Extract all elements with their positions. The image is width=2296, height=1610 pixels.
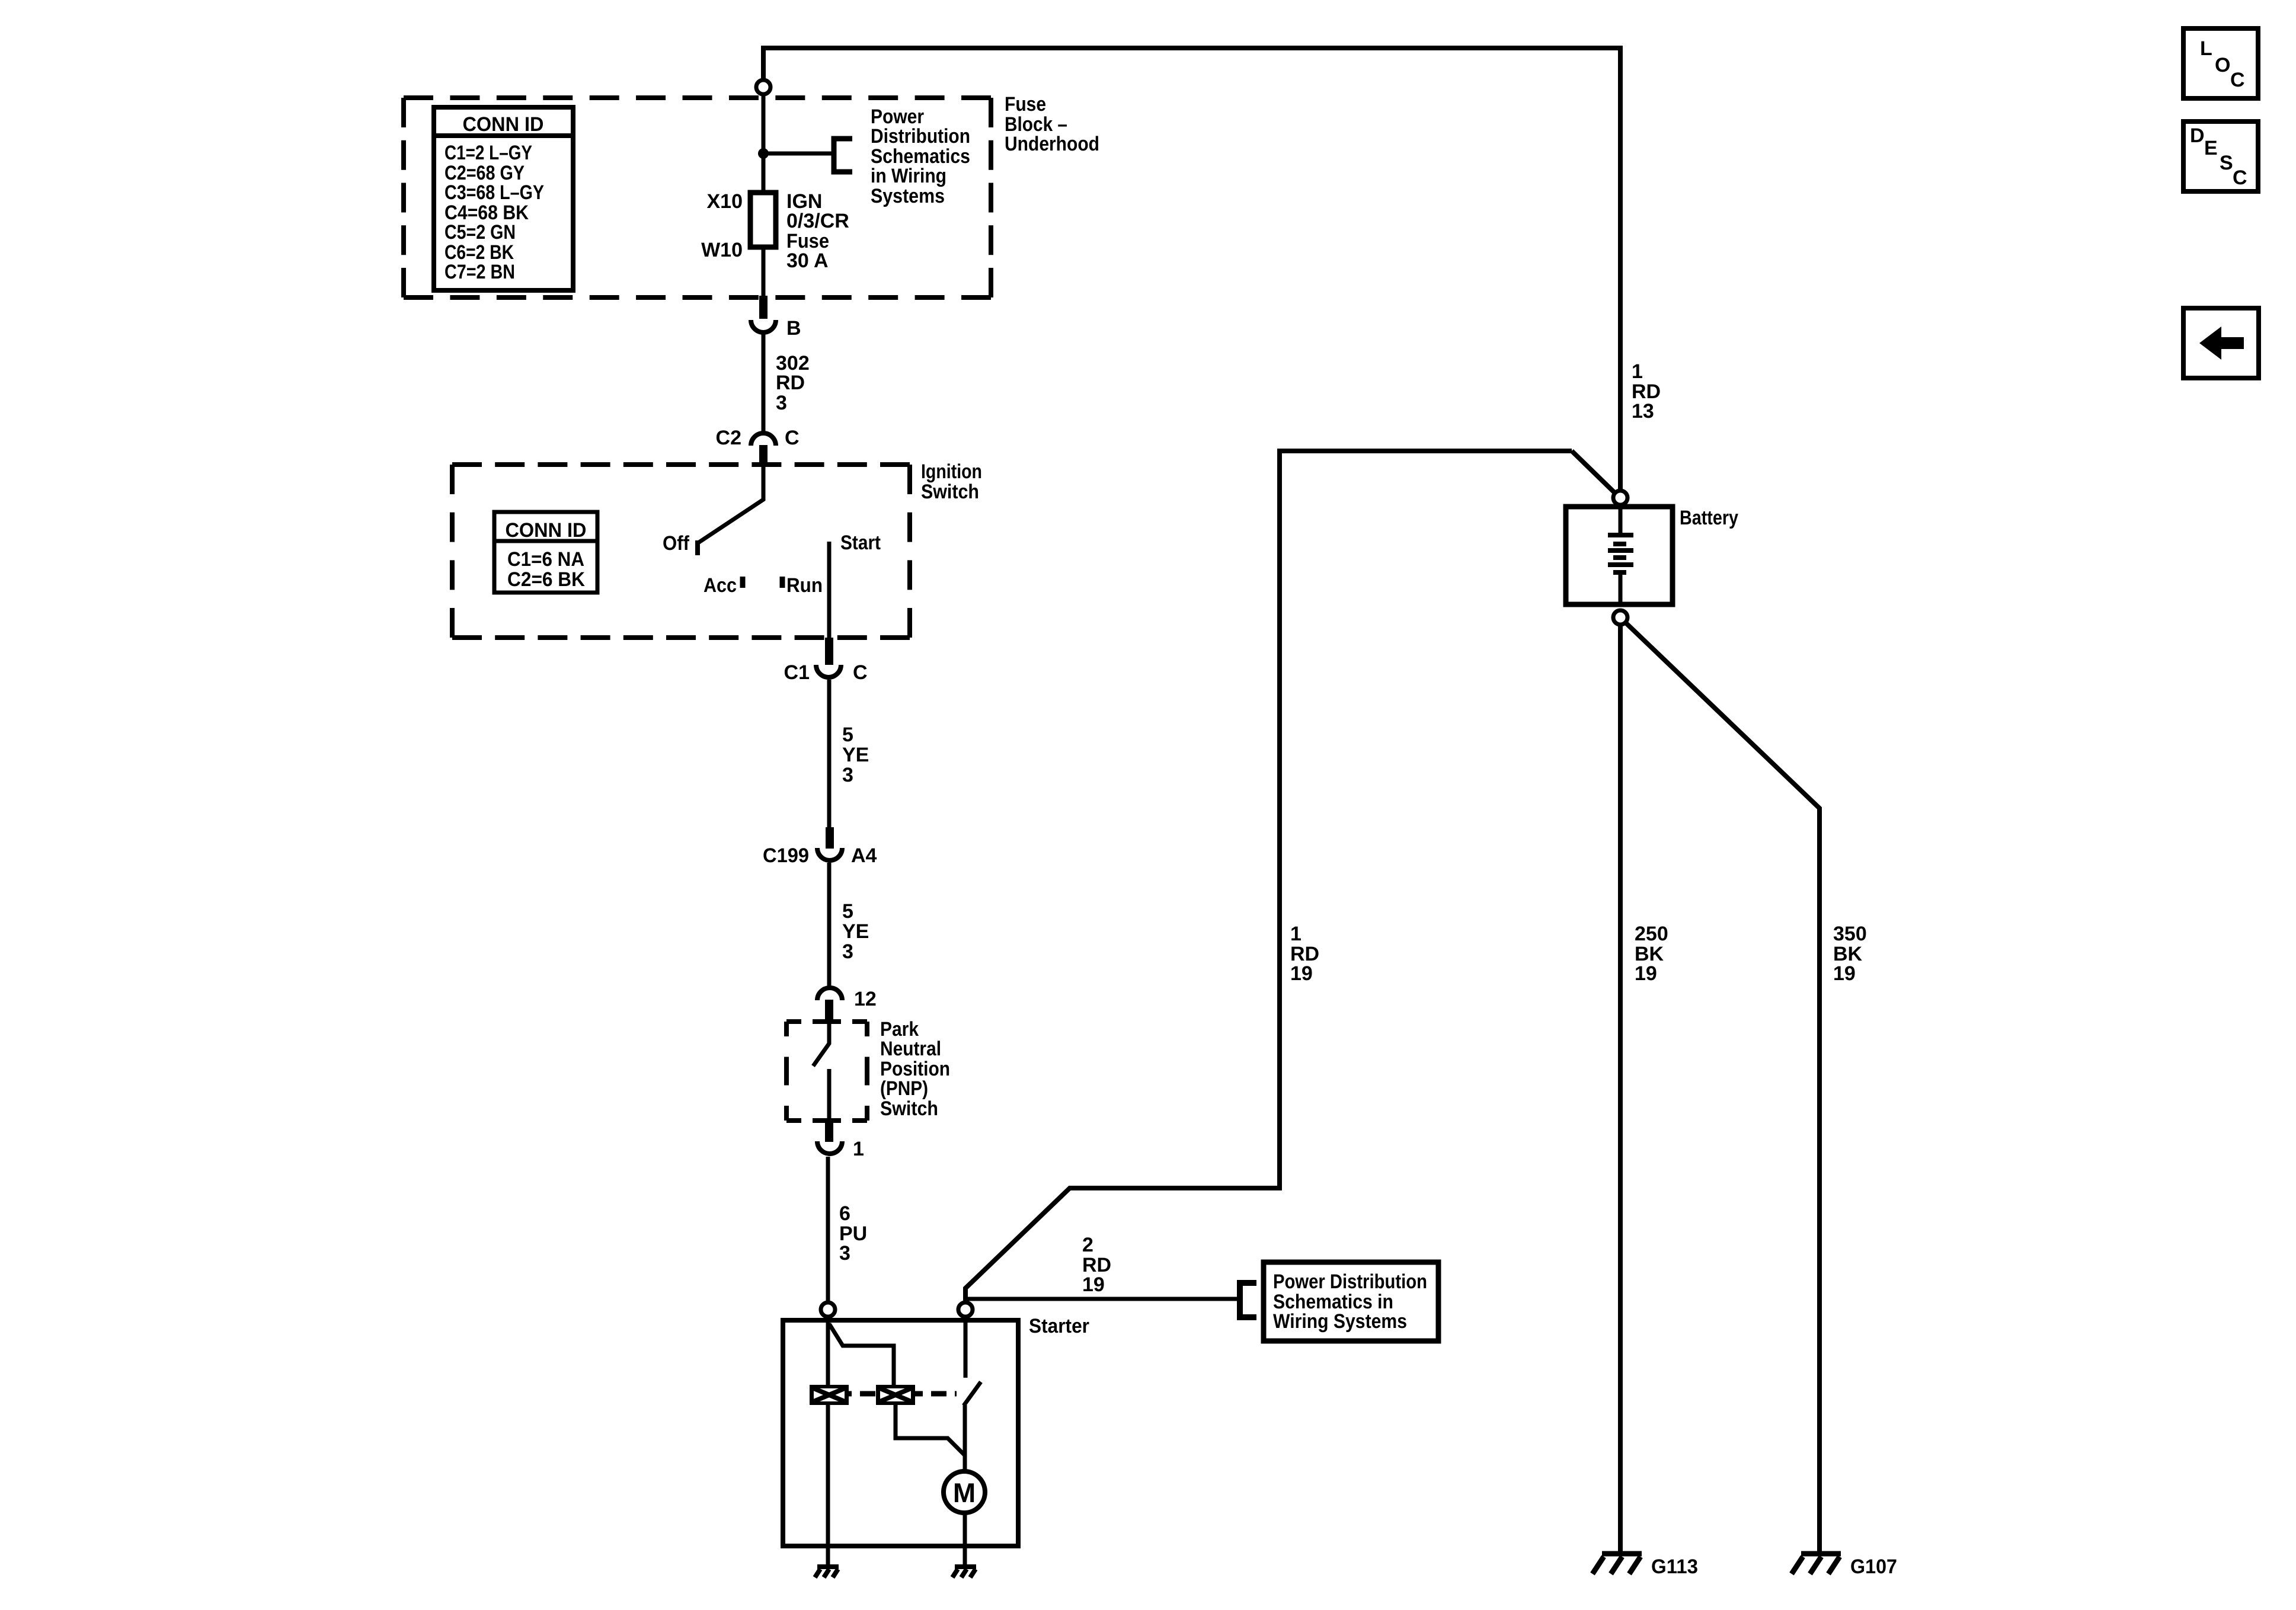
svg-text:G113: G113 bbox=[1651, 1555, 1698, 1578]
svg-text:Acc: Acc bbox=[703, 574, 737, 597]
starter motor M bbox=[944, 1471, 985, 1513]
svg-text:O: O bbox=[2215, 54, 2230, 76]
wire label 1 RD 19 bbox=[1290, 923, 1319, 985]
svg-text:Off: Off bbox=[663, 532, 690, 555]
svg-text:30 A: 30 A bbox=[786, 249, 829, 272]
starter terminal S bbox=[821, 1302, 835, 1317]
wire label 250 BK 19 bbox=[1635, 923, 1668, 985]
starter: coil dashed link bbox=[849, 1391, 957, 1397]
svg-text:X10: X10 bbox=[707, 190, 743, 213]
PNP switch blade bbox=[813, 1021, 829, 1066]
ground: starter motor bbox=[952, 1567, 976, 1577]
junction dot to off-page pointer bbox=[758, 148, 769, 159]
starter: blade to pull-in coil bbox=[829, 1324, 894, 1385]
fuse IGN 30A bbox=[750, 193, 776, 247]
CONN ID table (fuse block) bbox=[434, 107, 573, 290]
label: power distribution schematics (fuse block) bbox=[871, 105, 970, 207]
connector B socket arc bbox=[751, 320, 776, 332]
wire: 6 PU 3 bbox=[826, 1157, 830, 1302]
wire label 5 YE 3 (lower) bbox=[842, 900, 869, 963]
PNP switch dashed box bbox=[786, 1022, 867, 1121]
PNP lower contact bbox=[827, 1069, 832, 1125]
wire: 302 RD 3 bbox=[762, 334, 766, 433]
wire: fuse to connector B bbox=[762, 247, 766, 298]
svg-text:C2: C2 bbox=[716, 427, 741, 449]
svg-text:19: 19 bbox=[1082, 1273, 1105, 1296]
acc contact tick bbox=[740, 577, 746, 588]
svg-text:3: 3 bbox=[776, 392, 787, 414]
svg-text:C: C bbox=[853, 661, 868, 684]
ignition switch dashed box bbox=[452, 465, 910, 638]
node: splice above fuse block bbox=[756, 80, 770, 94]
label: fuse block - underhood bbox=[1005, 93, 1099, 155]
svg-text:in Wiring: in Wiring bbox=[871, 165, 946, 187]
svg-text:C1=2 L–GY: C1=2 L–GY bbox=[445, 142, 532, 164]
ground G113 bbox=[1593, 1554, 1642, 1574]
wire label 1 RD 13 bbox=[1632, 360, 1661, 422]
battery top terminal bbox=[1613, 491, 1627, 505]
wire label 2 RD 19 bbox=[1082, 1234, 1111, 1296]
svg-text:Distribution: Distribution bbox=[871, 125, 970, 148]
ground G107 bbox=[1792, 1554, 1841, 1574]
connector C1 pin bbox=[825, 638, 833, 665]
fuse block - underhood dashed box bbox=[404, 98, 991, 297]
connector 1 pin bbox=[825, 1122, 833, 1142]
svg-text:Power Distribution: Power Distribution bbox=[1273, 1270, 1427, 1293]
svg-text:5: 5 bbox=[842, 724, 853, 746]
svg-text:19: 19 bbox=[1833, 962, 1856, 985]
run contact tick bbox=[780, 577, 785, 588]
connector C2 dome bbox=[751, 433, 776, 446]
svg-text:C7=2 BN: C7=2 BN bbox=[445, 261, 515, 283]
svg-text:C: C bbox=[2230, 69, 2245, 91]
svg-text:12: 12 bbox=[854, 988, 877, 1010]
svg-text:3: 3 bbox=[839, 1242, 850, 1265]
starter: pull-in coil bbox=[876, 1385, 915, 1405]
svg-text:3: 3 bbox=[842, 764, 853, 786]
wire: 350 BK 19 to G107 bbox=[1625, 622, 1819, 1553]
connector 1 socket arc bbox=[817, 1141, 842, 1154]
svg-text:0/3/CR: 0/3/CR bbox=[786, 210, 849, 232]
svg-text:3: 3 bbox=[842, 940, 853, 963]
svg-text:350: 350 bbox=[1833, 923, 1867, 945]
svg-text:C3=68 L–GY: C3=68 L–GY bbox=[445, 181, 544, 204]
svg-text:6: 6 bbox=[839, 1202, 850, 1225]
svg-text:S: S bbox=[2220, 152, 2233, 174]
battery bottom terminal bbox=[1613, 610, 1627, 625]
wire: diagonal into battery + terminal bbox=[1572, 451, 1617, 495]
svg-text:19: 19 bbox=[1290, 962, 1313, 985]
connector C2 pin bbox=[759, 445, 768, 467]
svg-text:1: 1 bbox=[1632, 360, 1643, 383]
svg-text:G107: G107 bbox=[1850, 1555, 1897, 1578]
starter terminal B bbox=[958, 1302, 973, 1317]
label: park neutral position switch bbox=[880, 1018, 950, 1120]
svg-text:(PNP): (PNP) bbox=[880, 1077, 928, 1100]
svg-text:W10: W10 bbox=[701, 239, 743, 261]
svg-text:Wiring Systems: Wiring Systems bbox=[1273, 1310, 1407, 1333]
starter: wire to motor bbox=[963, 1405, 967, 1473]
CONN ID table (ignition switch) bbox=[494, 512, 597, 593]
wire label 5 YE 3 (upper) bbox=[842, 724, 869, 786]
off contact tick bbox=[695, 540, 700, 555]
svg-text:CONN ID: CONN ID bbox=[463, 113, 544, 136]
wire: 2 RD 19 to off-page bbox=[965, 1297, 1237, 1301]
LOC box bbox=[2183, 28, 2258, 98]
svg-text:Switch: Switch bbox=[921, 481, 979, 503]
start contact wire bbox=[827, 542, 832, 638]
power distribution schematics box bbox=[1264, 1262, 1438, 1341]
svg-text:Start: Start bbox=[840, 532, 881, 554]
off-page bracket (starter feed) bbox=[1240, 1283, 1256, 1317]
wire: 250 BK 19 to G113 bbox=[1618, 625, 1623, 1553]
svg-text:Run: Run bbox=[786, 574, 823, 597]
svg-text:E: E bbox=[2204, 137, 2218, 159]
wire: to off-page bracket bbox=[763, 152, 832, 156]
svg-text:1: 1 bbox=[1290, 923, 1302, 945]
wire: node to fuse bbox=[762, 94, 766, 196]
connector C1 socket arc bbox=[816, 665, 841, 677]
battery cells bbox=[1619, 507, 1623, 533]
starter: motor to ground bbox=[963, 1513, 967, 1566]
svg-text:B: B bbox=[786, 317, 801, 340]
svg-text:C199: C199 bbox=[763, 844, 809, 867]
svg-text:Systems: Systems bbox=[871, 185, 945, 207]
DESC box bbox=[2183, 121, 2258, 191]
svg-text:19: 19 bbox=[1635, 962, 1657, 985]
starter: pull-in coil return bbox=[896, 1405, 964, 1455]
svg-text:Neutral: Neutral bbox=[880, 1038, 941, 1060]
starter: left wire through hold-in coil bbox=[826, 1317, 830, 1566]
svg-text:Switch: Switch bbox=[880, 1097, 938, 1120]
svg-text:1: 1 bbox=[853, 1138, 864, 1160]
connector 12 dome bbox=[817, 988, 842, 1000]
starter: contact fixed wire bbox=[964, 1317, 968, 1378]
starter: contact blade bbox=[964, 1382, 981, 1406]
wire label 302 RD 3 bbox=[776, 352, 810, 414]
connector C199 socket arc bbox=[817, 848, 842, 860]
svg-text:C2=6 BK: C2=6 BK bbox=[507, 568, 585, 591]
svg-text:Fuse: Fuse bbox=[1005, 93, 1046, 116]
svg-text:Starter: Starter bbox=[1029, 1315, 1089, 1337]
ground: starter solenoid bbox=[815, 1567, 839, 1577]
svg-text:A4: A4 bbox=[851, 844, 877, 867]
wire label 6 PU 3 bbox=[839, 1202, 867, 1265]
svg-text:250: 250 bbox=[1635, 923, 1668, 945]
battery box bbox=[1566, 507, 1673, 604]
svg-text:C: C bbox=[785, 427, 800, 449]
wire label 350 BK 19 bbox=[1833, 923, 1867, 985]
off-page bracket (power distribution) bbox=[834, 139, 852, 172]
connector C199 pin bbox=[826, 827, 834, 849]
connector B pin bbox=[759, 296, 768, 319]
svg-text:YE: YE bbox=[842, 744, 869, 766]
wire: 1 RD 19 from battery to starter bbox=[965, 451, 1572, 1301]
svg-text:C1=6 NA: C1=6 NA bbox=[507, 548, 584, 571]
svg-text:Underhood: Underhood bbox=[1005, 133, 1099, 155]
svg-text:YE: YE bbox=[842, 920, 869, 943]
back-arrow box bbox=[2183, 308, 2259, 378]
svg-text:2: 2 bbox=[1082, 1234, 1093, 1256]
svg-text:L: L bbox=[2200, 37, 2212, 60]
wire: top feed from fuse block to battery bbox=[763, 48, 1620, 490]
wire: 5 YE 3 (lower) bbox=[827, 863, 832, 986]
svg-text:CONN ID: CONN ID bbox=[506, 519, 587, 542]
svg-text:D: D bbox=[2190, 124, 2205, 147]
svg-text:Battery: Battery bbox=[1680, 507, 1738, 529]
connector 12 pin bbox=[825, 1000, 833, 1021]
svg-text:C5=2 GN: C5=2 GN bbox=[445, 221, 516, 244]
svg-text:13: 13 bbox=[1632, 400, 1654, 422]
svg-text:M: M bbox=[953, 1477, 976, 1508]
switch blade to Off bbox=[698, 467, 763, 543]
starter box bbox=[783, 1320, 1018, 1546]
wire: 5 YE 3 (upper) bbox=[827, 680, 832, 828]
svg-text:C: C bbox=[2233, 167, 2247, 189]
svg-text:C1: C1 bbox=[784, 661, 810, 684]
starter: hold-in coil bbox=[810, 1385, 849, 1405]
svg-text:RD: RD bbox=[776, 372, 805, 394]
svg-text:5: 5 bbox=[842, 900, 853, 923]
svg-text:Ignition: Ignition bbox=[921, 460, 982, 483]
